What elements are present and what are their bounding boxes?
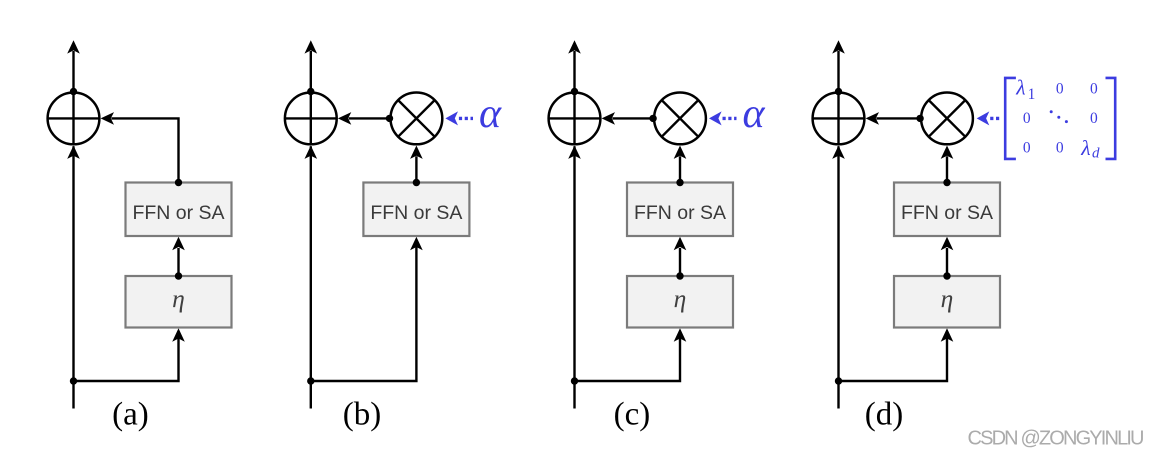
svg-text:FFN or SA: FFN or SA: [132, 202, 224, 224]
svg-text:η: η: [941, 284, 954, 313]
svg-text:1: 1: [1028, 86, 1036, 103]
svg-text:FFN or SA: FFN or SA: [901, 202, 993, 224]
svg-text:(a): (a): [112, 397, 149, 433]
svg-text:λ: λ: [1015, 76, 1025, 100]
svg-text:0: 0: [1090, 80, 1098, 97]
svg-text:η: η: [674, 284, 687, 313]
svg-text:λ: λ: [1080, 136, 1090, 160]
svg-text:FFN or SA: FFN or SA: [370, 202, 462, 224]
svg-text:0: 0: [1056, 139, 1064, 156]
svg-text:η: η: [172, 284, 185, 313]
svg-text:(c): (c): [614, 397, 651, 433]
svg-text:CSDN @ZONGYINLIU: CSDN @ZONGYINLIU: [968, 428, 1145, 450]
svg-text:α: α: [479, 91, 502, 137]
svg-text:0: 0: [1023, 110, 1031, 127]
svg-text:(d): (d): [865, 397, 903, 433]
svg-text:d: d: [1092, 146, 1100, 162]
svg-text:(b): (b): [343, 397, 381, 433]
svg-text:α: α: [743, 91, 766, 137]
svg-text:0: 0: [1056, 80, 1064, 97]
svg-text:0: 0: [1023, 139, 1031, 156]
svg-text:0: 0: [1090, 110, 1098, 127]
svg-text:FFN or SA: FFN or SA: [634, 202, 726, 224]
